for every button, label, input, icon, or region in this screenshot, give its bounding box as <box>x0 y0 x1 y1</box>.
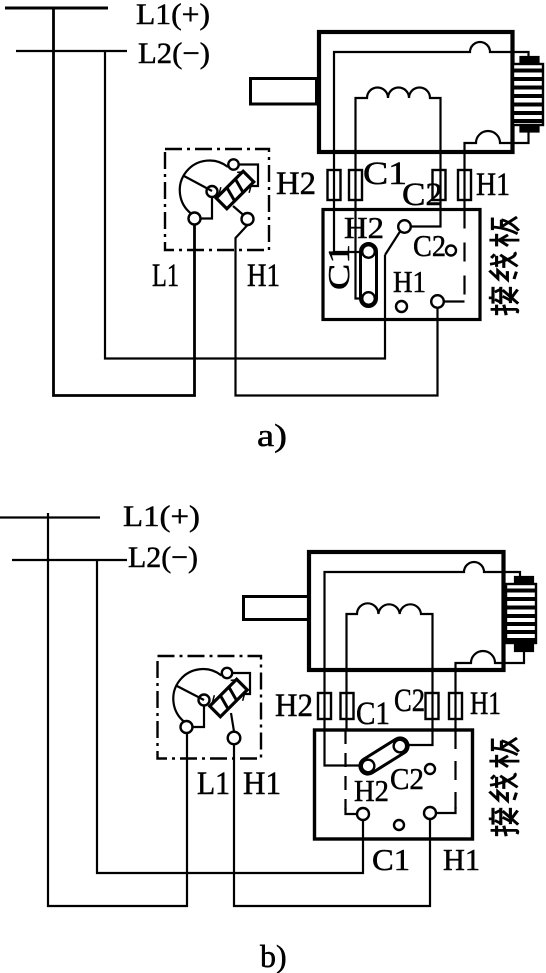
resistor element b <box>207 675 252 720</box>
svg-text:C2: C2 <box>413 228 446 263</box>
terminal stud C1 <box>349 170 362 200</box>
label 接线板 (board name a) <box>489 217 520 315</box>
board common contact circle <box>398 220 411 233</box>
terminal stud H1 <box>458 170 471 200</box>
switch wiper <box>184 176 212 191</box>
wire H1: bottom brush into board dashed riser b <box>456 651 525 730</box>
svg-text:C1: C1 <box>321 244 356 290</box>
svg-text:L1: L1 <box>152 258 179 294</box>
bus L2(-) b <box>12 559 127 561</box>
svg-text:H1: H1 <box>243 766 281 802</box>
commutator top brush tab b <box>515 577 533 584</box>
switch contact circle top <box>228 159 238 169</box>
field coil C1-C2 <box>356 88 441 299</box>
terminal board outline <box>323 210 480 320</box>
wire H2: board link to brush b <box>325 562 521 766</box>
label 接线板 (board name b) <box>489 738 520 836</box>
svg-text:L2(−): L2(−) <box>128 541 198 574</box>
terminal stud C2 b <box>426 693 439 719</box>
switch center pivot circle <box>207 186 218 197</box>
wire L2 bus to board C1 b <box>97 560 363 873</box>
dashed riser C1 b <box>344 730 346 810</box>
resistor element (hatched, rotated) <box>213 167 258 212</box>
field coil C1-C2 b <box>347 603 433 745</box>
terminal stud C1 b <box>341 693 354 719</box>
svg-text:C2: C2 <box>394 683 425 719</box>
bus L1(+) b <box>0 516 100 518</box>
board contact circle H1 out b <box>424 807 436 819</box>
board contact circle C1 out b <box>357 808 369 820</box>
board contact circle C2 <box>446 246 456 256</box>
switch rotor arc <box>180 161 228 214</box>
svg-text:H1: H1 <box>470 686 501 722</box>
svg-text:L1(+): L1(+) <box>136 0 210 31</box>
wire switch H1 to board H1 b <box>234 744 430 906</box>
dashed riser H1 <box>463 210 465 302</box>
switch box S border <box>165 149 269 250</box>
commutator top brush tab <box>521 57 539 64</box>
svg-text:C1: C1 <box>356 696 390 732</box>
wire H1 contact to dashed riser <box>444 300 465 302</box>
wire pivot to contact L1 <box>201 197 213 219</box>
switch center pivot circle b <box>199 695 210 706</box>
switch contact circle top b <box>222 668 232 678</box>
wire H2: board link to brush (motor inner loop top) <box>334 42 529 252</box>
svg-text:a): a) <box>257 417 287 453</box>
wire element to contact H1 <box>233 206 244 216</box>
svg-text:H2: H2 <box>276 166 316 202</box>
svg-text:H2: H2 <box>344 210 384 245</box>
svg-text:L1(+): L1(+) <box>123 500 200 533</box>
dashed riser H1 b <box>454 730 456 809</box>
svg-text:H2: H2 <box>275 688 313 724</box>
bus L2(-) <box>16 50 127 52</box>
motor M frame <box>319 32 513 152</box>
wire top contact to resistor element b <box>232 673 250 694</box>
blade wire to common <box>385 232 400 256</box>
svg-text:H1: H1 <box>443 842 480 877</box>
svg-text:H2: H2 <box>354 773 389 808</box>
commutator bottom brush tab <box>521 125 539 132</box>
switch contact circle L1 <box>189 213 201 225</box>
svg-text:L1: L1 <box>197 766 230 802</box>
wire L1 bus to switch terminal L1 <box>54 8 195 396</box>
board stud circle <box>396 301 407 312</box>
link jumper H2-C1 <box>361 244 377 307</box>
wire switch H1 to board contact H1 <box>236 225 438 396</box>
switch contact circle L1 b <box>181 721 193 733</box>
wire H1: bottom brush to board dashed node <box>465 131 529 210</box>
svg-text:H1: H1 <box>247 258 280 294</box>
terminal stud H2 b <box>318 693 331 719</box>
terminal stud H1 b <box>449 693 462 719</box>
svg-text:H1: H1 <box>476 167 510 203</box>
wire pivot to contact L1 b <box>193 706 205 728</box>
wire element to contact H1 b <box>231 713 234 732</box>
switch box S border b <box>158 656 262 759</box>
terminal board outline b <box>315 730 473 839</box>
commutator bottom brush tab b <box>515 643 533 651</box>
terminal stud H2 <box>328 170 341 200</box>
commutator stack <box>513 64 543 125</box>
svg-text:C2: C2 <box>390 761 424 796</box>
board contact small circle C2 b <box>425 764 435 774</box>
svg-text:C1: C1 <box>372 842 410 877</box>
svg-text:L2(−): L2(−) <box>138 37 210 70</box>
board stud circle b <box>394 820 404 830</box>
svg-text:b): b) <box>260 938 287 973</box>
svg-text:C1: C1 <box>363 156 407 192</box>
wire L2 bus to board common blade <box>105 51 385 359</box>
board contact circle H1 <box>431 295 444 308</box>
wire top contact to resistor element <box>239 165 258 187</box>
motor M frame b <box>309 552 504 670</box>
switch contact circle H1 <box>242 213 254 225</box>
switch wiper b <box>176 686 204 701</box>
motor shaft <box>251 79 317 105</box>
bus L1(+) <box>5 7 108 10</box>
svg-text:C2: C2 <box>402 177 443 213</box>
wire L1 bus to switch terminal L1 b <box>48 513 187 906</box>
motor shaft b <box>244 597 310 620</box>
switch rotor arc b <box>173 669 221 722</box>
terminal stud C2 <box>433 170 446 200</box>
svg-text:H1: H1 <box>393 264 426 299</box>
link jumper H2-C2 (diagonal) b <box>357 735 411 777</box>
switch contact circle H1 b <box>228 732 241 745</box>
commutator stack b <box>506 584 536 643</box>
